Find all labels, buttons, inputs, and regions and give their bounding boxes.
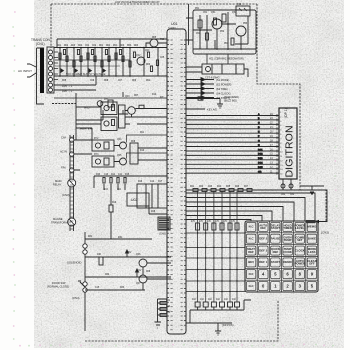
svg-text:(CN1): (CN1)	[36, 42, 45, 46]
svg-text:R22: R22	[199, 186, 204, 188]
svg-text:D01: D01	[57, 45, 62, 47]
svg-text:U01: U01	[171, 22, 178, 26]
svg-text:R09: R09	[132, 80, 137, 82]
svg-text:BAKE: BAKE	[308, 237, 316, 241]
svg-text:(S2 POWER): (S2 POWER)	[216, 83, 232, 87]
svg-text:LESS: LESS	[308, 250, 315, 254]
svg-text:D05: D05	[62, 80, 67, 82]
svg-text:(NORMAL CLOSE): (NORMAL CLOSE)	[47, 285, 69, 289]
svg-text:C02: C02	[92, 45, 97, 47]
svg-text:SOLENOID: SOLENOID	[67, 261, 81, 265]
svg-text:C54: C54	[196, 33, 201, 35]
svg-text:R08: R08	[104, 80, 109, 82]
svg-text:Q52: Q52	[232, 12, 237, 14]
svg-text:INT: INT	[160, 97, 164, 99]
svg-text:R06: R06	[146, 64, 151, 66]
svg-text:GR: GR	[258, 171, 262, 173]
svg-text:D06 → F: D06 → F	[62, 89, 73, 93]
svg-text:(S3 TIME): (S3 TIME)	[216, 87, 228, 91]
svg-text:R27: R27	[244, 186, 249, 188]
svg-text:RY3: RY3	[94, 154, 99, 156]
svg-text:D05 → F: D05 → F	[62, 84, 73, 88]
svg-text:R02: R02	[106, 45, 111, 47]
svg-text:C51: C51	[203, 12, 208, 14]
svg-text:N.C: N.C	[249, 225, 254, 229]
svg-text:P60: P60	[160, 39, 165, 41]
svg-text:TRANSFORMER: TRANSFORMER	[51, 221, 71, 225]
svg-text:(S4 CLOCK): (S4 CLOCK)	[216, 92, 231, 96]
svg-text:(DP POS): (DP POS)	[222, 323, 234, 327]
svg-text:Q07: Q07	[136, 283, 141, 285]
svg-text:DG5: DG5	[258, 167, 263, 169]
svg-text:C03: C03	[120, 45, 125, 47]
svg-text:RELAY: RELAY	[53, 183, 62, 187]
svg-text:DEF: DEF	[248, 250, 254, 254]
svg-text:(S1 MODE): (S1 MODE)	[216, 78, 230, 82]
svg-text:CLOCK: CLOCK	[295, 248, 305, 252]
svg-text:(CN4): (CN4)	[72, 296, 80, 300]
svg-text:F/M: F/M	[61, 166, 65, 170]
svg-text:C01: C01	[85, 45, 90, 47]
svg-text:KEY A/D: KEY A/D	[207, 108, 217, 112]
svg-text:R18: R18	[151, 211, 156, 213]
svg-text:R23: R23	[208, 186, 213, 188]
svg-text:DIGITRON: DIGITRON	[284, 125, 296, 177]
svg-text:(BUZZ IND): (BUZZ IND)	[224, 99, 237, 102]
svg-text:10K: 10K	[97, 254, 102, 256]
svg-text:R14: R14	[111, 174, 116, 176]
svg-text:D03: D03	[71, 45, 76, 47]
svg-text:DEF 3: DEF 3	[259, 248, 267, 252]
svg-text:R10: R10	[152, 94, 157, 96]
svg-text:R41: R41	[166, 300, 171, 302]
svg-text:LEVEL: LEVEL	[295, 226, 304, 230]
svg-text:MAIN: MAIN	[55, 179, 62, 183]
svg-text:R19: R19	[112, 202, 117, 204]
svg-text:X02: X02	[237, 4, 242, 6]
svg-text:C61: C61	[281, 194, 286, 196]
svg-text:DEF 2: DEF 2	[259, 237, 267, 241]
svg-text:ZD2: ZD2	[146, 80, 151, 82]
svg-text:R05: R05	[152, 37, 157, 39]
svg-text:R17: R17	[158, 181, 163, 183]
svg-text:+5V: +5V	[137, 269, 142, 272]
svg-text:DG1: DG1	[258, 149, 263, 151]
svg-text:HEATER: HEATER	[80, 127, 93, 131]
svg-text:R15: R15	[125, 174, 130, 176]
svg-text:D02: D02	[64, 45, 69, 47]
svg-text:MEMO: MEMO	[308, 225, 318, 229]
svg-text:R12: R12	[140, 150, 145, 152]
svg-text:C06: C06	[90, 80, 95, 82]
svg-text:R51: R51	[195, 8, 200, 10]
svg-text:R26: R26	[235, 186, 240, 188]
svg-text:R31: R31	[88, 236, 93, 238]
svg-text:C05: C05	[160, 57, 165, 59]
svg-text:(CN3): (CN3)	[62, 193, 70, 197]
svg-text:DEMO: DEMO	[283, 260, 292, 264]
svg-text:X01 (CERAMIC RESONATOR): X01 (CERAMIC RESONATOR)	[209, 58, 244, 61]
svg-text:C10: C10	[104, 174, 109, 176]
svg-text:Q51: Q51	[211, 12, 216, 14]
svg-text:C15: C15	[95, 287, 100, 289]
svg-text:R33: R33	[120, 287, 125, 289]
svg-text:U02: U02	[131, 198, 137, 202]
svg-text:Q04: Q04	[117, 139, 122, 141]
svg-text:R54: R54	[224, 43, 229, 45]
svg-text:TEMP: TEMP	[284, 238, 292, 242]
svg-text:TIMER: TIMER	[283, 226, 292, 230]
svg-text:+5V: +5V	[127, 251, 132, 254]
svg-text:Q05: Q05	[117, 155, 122, 157]
svg-text:RY1: RY1	[104, 99, 109, 101]
svg-text:R03: R03	[127, 45, 132, 47]
svg-text:Q03: Q03	[125, 96, 130, 98]
svg-text:Q06: Q06	[136, 254, 141, 256]
svg-text:C/M: C/M	[61, 136, 66, 140]
svg-text:COOK: COOK	[283, 250, 291, 254]
svg-text:Q01: Q01	[145, 50, 150, 52]
svg-text:DEF 1: DEF 1	[259, 260, 267, 264]
svg-text:SET: SET	[297, 238, 303, 242]
svg-text:N.C: N.C	[249, 272, 254, 276]
svg-text:R42: R42	[166, 306, 171, 308]
svg-text:POWER: POWER	[295, 262, 306, 266]
svg-text:AC INPUT: AC INPUT	[18, 69, 32, 73]
svg-text:BEV: BEV	[248, 260, 254, 264]
svg-text:RY2: RY2	[94, 138, 99, 140]
svg-text:(DP 1): (DP 1)	[284, 108, 288, 118]
svg-text:C62: C62	[290, 194, 295, 196]
svg-text:DOOR S/W: DOOR S/W	[52, 281, 66, 285]
svg-text:R32: R32	[105, 274, 110, 276]
svg-text:DEF: DEF	[260, 226, 266, 230]
svg-text:START: START	[271, 260, 280, 264]
svg-text:R24: R24	[217, 186, 222, 188]
svg-text:C07: C07	[118, 80, 123, 82]
svg-text:R43: R43	[166, 312, 171, 314]
svg-text:(CN2): (CN2)	[321, 231, 329, 235]
svg-text:VCC POWER SUPPLY VOLTAGE: VCC POWER SUPPLY VOLTAGE	[66, 72, 106, 76]
svg-text:R16: R16	[138, 181, 143, 183]
svg-text:WCT: WCT	[84, 106, 91, 110]
svg-text:R13: R13	[96, 174, 101, 176]
svg-text:PAUSE: PAUSE	[271, 237, 281, 241]
svg-text:ZD1: ZD1	[113, 45, 118, 47]
svg-text:IC(4BIT): IC(4BIT)	[168, 28, 177, 30]
svg-text:R53: R53	[243, 23, 248, 25]
svg-text:DEF: DEF	[273, 250, 279, 254]
svg-text:R52: R52	[220, 31, 225, 33]
svg-text:D09: D09	[146, 271, 151, 273]
svg-text:R31: R31	[118, 236, 123, 239]
svg-text:G: G	[258, 140, 260, 142]
svg-text:OFF: OFF	[309, 262, 315, 266]
svg-text:Q02: Q02	[136, 55, 141, 57]
svg-text:N.C: N.C	[249, 284, 254, 288]
svg-text:D04: D04	[78, 45, 83, 47]
svg-text:DG2: DG2	[258, 154, 263, 156]
svg-text:AC IN: AC IN	[60, 150, 67, 154]
svg-text:LOW VOLTAGE TRANSFORMER CIR: LOW VOLTAGE TRANSFORMER CIRCUIT	[115, 1, 160, 4]
svg-text:START: START	[271, 226, 280, 230]
svg-text:(CN5): (CN5)	[159, 232, 166, 236]
svg-text:R25: R25	[226, 186, 231, 188]
svg-text:D08: D08	[131, 141, 136, 143]
svg-text:DG3: DG3	[258, 158, 263, 160]
svg-text:R21: R21	[190, 186, 195, 188]
svg-text:N.C: N.C	[249, 237, 254, 241]
svg-text:R01: R01	[99, 45, 104, 47]
svg-text:C12: C12	[150, 181, 155, 183]
svg-text:R04: R04	[134, 45, 139, 47]
svg-text:MAGNE: MAGNE	[53, 217, 63, 221]
svg-text:DG4: DG4	[258, 163, 263, 165]
svg-text:D07: D07	[134, 95, 139, 97]
